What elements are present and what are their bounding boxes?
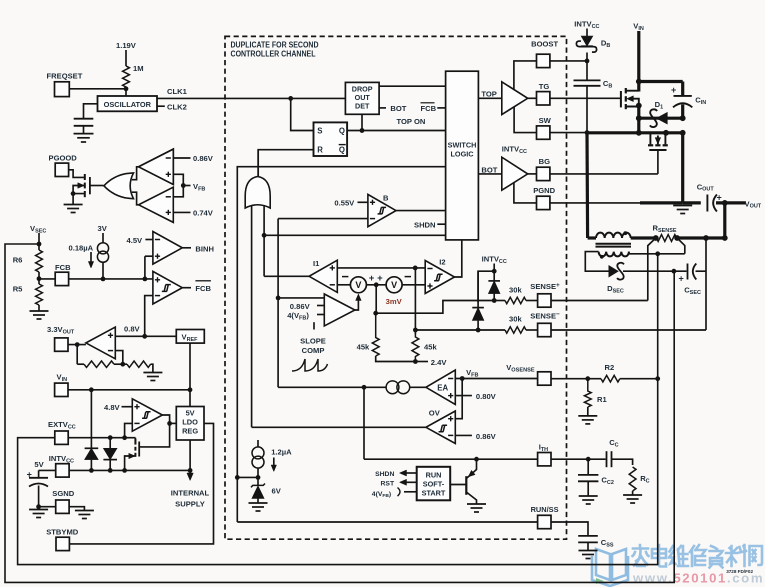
svg-text:VFB: VFB [193, 182, 205, 192]
svg-text:6V: 6V [272, 487, 282, 496]
svg-text:RSENSE: RSENSE [653, 224, 677, 234]
svg-text:0.8V: 0.8V [124, 325, 141, 334]
svg-text:EXTVCC: EXTVCC [48, 420, 76, 430]
svg-text:R5: R5 [13, 285, 23, 294]
svg-text:CIN: CIN [695, 96, 706, 106]
svg-text:+: + [717, 192, 722, 202]
svg-text:VSEC: VSEC [30, 224, 46, 234]
svg-text:S: S [317, 126, 322, 135]
svg-text:BOOST: BOOST [531, 40, 558, 49]
svg-text:SOFT-: SOFT- [423, 479, 445, 488]
svg-text:V: V [391, 280, 397, 290]
svg-text:3mV: 3mV [386, 297, 403, 306]
svg-text:45k: 45k [424, 342, 437, 351]
svg-text:0.86V: 0.86V [193, 154, 214, 163]
svg-text:3728 FD/F02: 3728 FD/F02 [726, 569, 753, 574]
svg-text:CB: CB [603, 79, 612, 89]
svg-text:BINH: BINH [195, 244, 214, 253]
svg-text:EA: EA [437, 383, 448, 392]
svg-text:SUPPLY: SUPPLY [175, 500, 205, 509]
svg-text:1.19V: 1.19V [116, 41, 137, 50]
svg-text:VOUT: VOUT [745, 199, 762, 209]
svg-text:CONTROLLER CHANNEL: CONTROLLER CHANNEL [231, 50, 316, 59]
svg-text:INTVCC: INTVCC [574, 20, 599, 30]
svg-text:REG: REG [182, 427, 198, 436]
svg-text:Q: Q [339, 126, 345, 135]
svg-text:CLK1: CLK1 [167, 87, 188, 96]
svg-text:+ +: + + [369, 273, 383, 284]
svg-text:B: B [383, 193, 389, 202]
svg-text:0.55V: 0.55V [334, 198, 355, 207]
svg-text:COUT: COUT [697, 182, 715, 192]
svg-text:I1: I1 [313, 259, 320, 268]
svg-text:DB: DB [601, 39, 610, 49]
svg-text:INTVCC: INTVCC [502, 145, 527, 155]
svg-text:BG: BG [539, 157, 550, 166]
svg-text:COMP: COMP [302, 346, 325, 355]
svg-text:TG: TG [539, 82, 550, 91]
svg-text:0.18µA: 0.18µA [69, 244, 94, 253]
svg-text:R6: R6 [13, 256, 23, 265]
svg-text:VFB: VFB [466, 368, 478, 378]
svg-text:SLOPE: SLOPE [300, 337, 326, 346]
svg-text:4(VFB): 4(VFB) [372, 491, 391, 499]
svg-text:ITH: ITH [539, 443, 548, 453]
svg-text:R2: R2 [605, 363, 615, 372]
svg-text:TOP: TOP [481, 90, 496, 99]
svg-text:LDO: LDO [182, 418, 198, 427]
svg-text:OSCILLATOR: OSCILLATOR [104, 100, 152, 109]
svg-text:INTERNAL: INTERNAL [171, 489, 210, 498]
svg-text:DET: DET [355, 102, 370, 111]
svg-text:OV: OV [429, 409, 441, 418]
svg-text:VIN: VIN [633, 22, 644, 32]
svg-text:STBYMD: STBYMD [46, 528, 79, 537]
svg-text:0.80V: 0.80V [476, 392, 497, 401]
svg-text:LOGIC: LOGIC [450, 150, 474, 159]
svg-text:1M: 1M [133, 64, 144, 73]
svg-text:FCB: FCB [195, 284, 211, 293]
svg-text:45k: 45k [357, 342, 370, 351]
svg-text:+: + [671, 85, 676, 95]
svg-text:5V: 5V [34, 460, 44, 469]
svg-text:RUN/SS: RUN/SS [531, 505, 559, 514]
svg-text:RC: RC [640, 474, 649, 484]
svg-text:VIN: VIN [57, 373, 68, 383]
svg-text:PGOOD: PGOOD [49, 154, 78, 163]
svg-text:R: R [317, 146, 323, 155]
svg-text:FREQSET: FREQSET [47, 72, 83, 81]
svg-text:START: START [422, 488, 446, 497]
svg-text:5V: 5V [186, 409, 195, 418]
svg-text:SW: SW [539, 116, 552, 125]
svg-text:DSEC: DSEC [607, 284, 624, 294]
svg-text:SWITCH: SWITCH [448, 140, 477, 149]
svg-text:SGND: SGND [52, 489, 74, 498]
svg-text:RUN: RUN [426, 470, 442, 479]
svg-text:SENSE−: SENSE− [530, 311, 560, 320]
svg-text:CC2: CC2 [601, 476, 613, 486]
svg-text:30k: 30k [509, 315, 522, 324]
svg-text:INTVCC: INTVCC [49, 454, 74, 464]
svg-text:FCB: FCB [421, 104, 437, 113]
svg-text:INTVCC: INTVCC [482, 255, 507, 265]
svg-text:CC: CC [609, 438, 618, 448]
svg-text:SHDN: SHDN [414, 220, 436, 229]
svg-text:SENSE+: SENSE+ [530, 282, 560, 291]
svg-text:V: V [355, 280, 361, 290]
svg-text:DUPLICATE FOR SECOND: DUPLICATE FOR SECOND [231, 40, 319, 49]
svg-text:30k: 30k [509, 286, 522, 295]
svg-text:1.2µA: 1.2µA [271, 448, 292, 457]
svg-text:0.86V: 0.86V [476, 432, 497, 441]
svg-text:TOP ON: TOP ON [397, 117, 426, 126]
svg-text:0.86V: 0.86V [290, 302, 311, 311]
svg-text:0.74V: 0.74V [193, 209, 214, 218]
svg-text:R1: R1 [597, 395, 607, 404]
svg-text:4.5V: 4.5V [127, 236, 144, 245]
svg-text:+: + [679, 274, 684, 284]
svg-text:VOSENSE: VOSENSE [506, 363, 535, 373]
svg-text:BOT: BOT [390, 104, 406, 113]
svg-text:PGND: PGND [533, 186, 555, 195]
svg-text:FCB: FCB [55, 263, 71, 272]
svg-text:4.8V: 4.8V [104, 403, 121, 412]
svg-text:3.3VOUT: 3.3VOUT [47, 325, 75, 335]
svg-text:CSS: CSS [601, 538, 614, 548]
svg-text:CSEC: CSEC [684, 286, 701, 296]
svg-text:Q: Q [339, 146, 345, 155]
svg-text:2.4V: 2.4V [431, 358, 448, 367]
svg-text:SHDN: SHDN [375, 471, 394, 478]
svg-text:3V: 3V [98, 224, 108, 233]
svg-text:4(VFB): 4(VFB) [287, 311, 309, 321]
svg-text:CLK2: CLK2 [167, 103, 187, 112]
svg-text:RST: RST [381, 480, 395, 487]
svg-text:I2: I2 [439, 258, 445, 267]
